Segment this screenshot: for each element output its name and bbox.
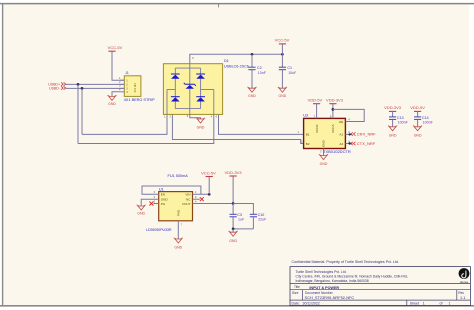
wire C10 branch <box>233 204 253 215</box>
svg-text:VDD-5V: VDD-5V <box>308 98 323 103</box>
wire U3 GND pin <box>323 149 325 156</box>
company logo dozee <box>459 268 470 279</box>
svg-text:100nF: 100nF <box>398 121 409 125</box>
wire VCC-5V to VIN <box>208 177 210 195</box>
ground (U1 left) <box>137 205 146 216</box>
svg-text:GND: GND <box>320 162 328 166</box>
ground (C14) <box>413 126 422 138</box>
svg-text:CRX_NRF: CRX_NRF <box>357 132 376 137</box>
svg-text:Title: Title <box>294 285 300 289</box>
title block row line 3 <box>290 299 470 301</box>
svg-text:A2: A2 <box>339 142 343 146</box>
svg-text:GND: GND <box>229 239 237 243</box>
svg-text:GND: GND <box>197 125 205 129</box>
svg-text:GND: GND <box>248 94 256 98</box>
svg-text:10nF: 10nF <box>258 71 267 75</box>
svg-text:Sheet: Sheet <box>410 302 419 306</box>
level shifter U3 TXB0102DCTR body <box>304 118 346 148</box>
svg-text:GND: GND <box>322 139 326 147</box>
svg-text:GND: GND <box>174 246 182 250</box>
svg-text:CTX_NRF: CTX_NRF <box>357 141 376 146</box>
svg-text:C2: C2 <box>257 66 262 70</box>
frame zone tick <box>218 4 220 8</box>
svg-text:VCC-5V: VCC-5V <box>108 45 123 50</box>
svg-text:Indiranagar, Bengaluru, Karnat: Indiranagar, Bengaluru, Karnataka, India… <box>296 279 369 283</box>
frame bottom border <box>0 305 474 307</box>
D1 internal outer-right wire <box>213 90 215 115</box>
J1 pin 1 stub <box>120 79 124 81</box>
title block row line 1 <box>290 283 470 285</box>
svg-text:A1: A1 <box>339 132 343 136</box>
wire D1 to U3 B2 <box>172 114 303 143</box>
capacitor C13 <box>389 111 409 126</box>
capacitor C2 <box>248 54 266 88</box>
svg-text:TXB0102DCTR: TXB0102DCTR <box>323 149 351 154</box>
wire U1 GND pin to ground <box>141 199 159 206</box>
svg-text:4X1 BERG STRIP: 4X1 BERG STRIP <box>124 98 155 102</box>
svg-text:C10: C10 <box>258 213 265 217</box>
wire J1 pin4 to ground <box>112 92 120 96</box>
size row dividers <box>302 290 304 300</box>
capacitor C10 <box>250 213 267 229</box>
wire to ground (C3/C10) <box>232 229 234 232</box>
junction (C2 tap on VBUS rail) <box>251 53 254 56</box>
svg-text:GND: GND <box>161 198 169 202</box>
U1 PG stub no-connect <box>153 203 158 205</box>
svg-text:VIN: VIN <box>185 193 190 197</box>
svg-text:USBD-: USBD- <box>49 86 61 90</box>
D1 internal center wire <box>189 64 191 115</box>
svg-text:PAD: PAD <box>177 209 181 216</box>
ground (C13) <box>388 126 397 138</box>
svg-text:dozee: dozee <box>460 280 469 284</box>
junction (VCCA / OE tap) <box>332 108 335 111</box>
port USBD- <box>49 86 66 90</box>
wire VDD-5V to VCCB <box>316 104 318 119</box>
junction (C1 / VCC tap) <box>281 53 284 56</box>
ground (below J1) <box>107 95 116 106</box>
port CRX_NRF <box>351 132 376 137</box>
wire VDD-3V3 to VCCA <box>332 104 334 119</box>
svg-text:GND: GND <box>279 94 287 98</box>
D1 internal outer-left wire <box>166 90 168 115</box>
frame top border <box>0 3 474 5</box>
svg-text:VCCA: VCCA <box>331 123 335 133</box>
svg-text:U3: U3 <box>303 114 308 118</box>
svg-text:C14: C14 <box>422 116 429 120</box>
svg-text:VCCB: VCCB <box>315 124 319 133</box>
svg-text:1: 1 <box>449 302 451 306</box>
wire VCC-5V down to rail <box>281 44 283 54</box>
power symbol VDD-3V3 (above U3) <box>326 98 344 104</box>
svg-text:VOUT: VOUT <box>182 202 191 206</box>
wire D1 GND pin <box>190 114 201 119</box>
U1 PAD pin wire <box>177 221 179 239</box>
D1 internal right chain wire <box>200 68 202 109</box>
U3 A1 stub <box>345 133 352 135</box>
svg-text:VDD-3V3: VDD-3V3 <box>326 98 344 103</box>
svg-text:D1: D1 <box>224 59 229 63</box>
svg-text:EN: EN <box>161 193 165 197</box>
svg-text:SCH_ST23R95-NRF52-NFC: SCH_ST23R95-NRF52-NFC <box>305 295 355 300</box>
wire EN-VIN loop <box>142 186 201 194</box>
power symbol VDD-3V3 (above C3) <box>225 170 243 176</box>
svg-text:B2: B2 <box>306 142 310 146</box>
svg-text:City Centre, #40, Ground & Mez: City Centre, #40, Ground & Mezzanine flr… <box>296 275 408 279</box>
wire C10 bottom return <box>233 228 253 230</box>
wire VCCA to OE loop <box>333 109 364 121</box>
svg-text:VDD-3V3: VDD-3V3 <box>384 105 402 110</box>
svg-text:4X1 MS: 4X1 MS <box>133 83 137 93</box>
ground (U1 PAD) <box>174 238 183 250</box>
svg-text:LD39050PU33R: LD39050PU33R <box>146 228 172 232</box>
junction (C3 / C10 gnd tap) <box>232 228 235 231</box>
svg-text:Turtle Shell Technologies Pvt.: Turtle Shell Technologies Pvt. Ltd. <box>296 270 347 274</box>
svg-text:GND: GND <box>389 133 397 137</box>
svg-text:GND: GND <box>414 133 422 137</box>
diode array D1 USBLC6-2SC6 body <box>163 64 222 115</box>
svg-text:10uF: 10uF <box>288 71 297 75</box>
D1 internal left chain wire <box>174 68 176 109</box>
svg-text:C13: C13 <box>397 116 404 120</box>
svg-text:NC: NC <box>186 198 191 202</box>
wire D1 VBUS rail <box>190 54 284 63</box>
svg-text:USBLC6-2SC6: USBLC6-2SC6 <box>224 64 249 68</box>
frame left border <box>2 4 4 306</box>
D1 internal mid-left link <box>167 89 175 91</box>
power symbol VCC-5V (above U1) <box>201 170 216 176</box>
capacitor C3 <box>230 204 245 229</box>
svg-text:GND: GND <box>108 102 116 106</box>
ground (C1) <box>278 87 287 98</box>
svg-text:VDD-3V3: VDD-3V3 <box>225 170 243 175</box>
port CTX_NRF <box>351 141 376 146</box>
wire USBD- to J1 pin3 <box>66 87 124 89</box>
svg-text:FU1 500mA: FU1 500mA <box>168 174 189 178</box>
diode D1c (top-right) <box>196 74 205 79</box>
J1 pin 3 stub <box>120 87 124 89</box>
wire USBD- to D1 pin (upper run) <box>82 114 167 134</box>
ground (C2) <box>247 87 256 98</box>
svg-text:U1: U1 <box>159 188 164 192</box>
svg-text:Size: Size <box>292 291 299 295</box>
svg-text:OE: OE <box>339 120 343 124</box>
J1 pin 4 stub <box>120 91 124 93</box>
U1 VIN stub <box>193 193 210 195</box>
svg-text:1: 1 <box>423 302 425 306</box>
svg-text:22uF: 22uF <box>258 218 267 222</box>
svg-text:30/11/2022: 30/11/2022 <box>303 302 320 306</box>
power symbol VDD-5V (above C14) <box>410 105 425 111</box>
wire VOUT to VDD-3V3 <box>193 203 234 205</box>
svg-text:100nF: 100nF <box>423 121 434 125</box>
svg-text:1uF: 1uF <box>238 218 245 222</box>
D1 internal top rail <box>175 67 200 69</box>
power symbol VCC-5V (top left) <box>108 45 123 51</box>
diode D1b (bottom-left) <box>171 97 180 102</box>
junction (USBD+ tap) <box>77 83 80 86</box>
capacitor C14 <box>414 111 434 126</box>
svg-text:VCC-5V: VCC-5V <box>275 38 290 43</box>
svg-text:of: of <box>440 302 443 306</box>
svg-text:J1: J1 <box>125 71 129 75</box>
svg-text:Date:: Date: <box>292 302 300 306</box>
svg-text:INPUT & POWER: INPUT & POWER <box>309 286 339 290</box>
junction (VOUT / C3 tap) <box>232 202 235 205</box>
title block outer box <box>290 267 470 306</box>
power symbol VCC-5V (above C1) <box>275 38 290 44</box>
connector J1 4X1 BERG STRIP <box>124 71 141 96</box>
svg-text:C1: C1 <box>287 66 292 70</box>
ground (D1) <box>196 118 205 130</box>
wire VDD-3V3 down to VOUT net <box>232 176 234 204</box>
diode D1d (bottom-right) <box>196 97 205 102</box>
svg-text:1.1: 1.1 <box>460 295 465 300</box>
J1 pin 2 stub <box>120 83 124 85</box>
regulator U1 LD39050PU33R body <box>159 192 193 221</box>
zener D1e (center) <box>184 83 196 89</box>
svg-text:B1: B1 <box>306 132 310 136</box>
port USBD+ <box>48 82 66 86</box>
wire D1 to U3 B1 <box>219 114 304 134</box>
wire USBD+ to J1 pin2 <box>66 83 124 85</box>
junction (VIN / VCC tap) <box>208 193 211 196</box>
svg-text:VCC-5V: VCC-5V <box>201 170 216 175</box>
date row dividers <box>406 300 408 306</box>
svg-text:Confidential Material. Propert: Confidential Material. Property of Turtl… <box>292 260 399 264</box>
power symbol VDD-5V (above U3) <box>308 98 323 104</box>
wire USBD- down <box>81 88 83 134</box>
wire VCC-5V to J1 pin1 <box>112 51 124 80</box>
U1 NC stub no-connect <box>193 198 200 200</box>
D1 internal bottom rail <box>175 108 200 110</box>
svg-text:VDD-5V: VDD-5V <box>410 105 425 110</box>
capacitor C1 <box>279 54 297 88</box>
ground (C3/C10) <box>229 231 238 243</box>
diode D1a (top-left) <box>171 74 180 79</box>
junction (USBD- tap) <box>81 87 84 90</box>
title block row line 2 <box>290 289 470 291</box>
wire USBD+ down <box>77 84 79 143</box>
svg-text:C3: C3 <box>237 213 242 217</box>
D1 internal mid-right link <box>201 89 214 91</box>
ground (U3) <box>319 154 328 166</box>
power symbol VDD-3V3 (above C13) <box>384 105 402 111</box>
svg-text:GND: GND <box>137 211 145 215</box>
U3 A2 stub <box>345 143 352 145</box>
svg-text:PG: PG <box>161 202 166 206</box>
wire USBD+ to D1 pin (lower run) <box>78 114 214 143</box>
SCHEMATIC <box>48 45 303 144</box>
